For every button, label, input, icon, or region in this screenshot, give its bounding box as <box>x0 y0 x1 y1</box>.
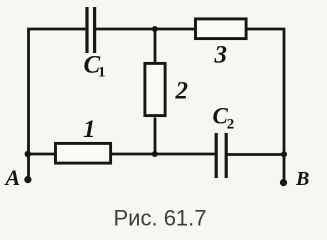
svg-text:A: A <box>4 165 21 190</box>
svg-text:2: 2 <box>227 116 235 132</box>
svg-text:3: 3 <box>214 42 228 69</box>
svg-text:Рис. 61.7: Рис. 61.7 <box>114 205 207 230</box>
svg-text:1: 1 <box>98 65 106 81</box>
svg-text:1: 1 <box>83 116 96 143</box>
svg-text:B: B <box>295 168 309 190</box>
svg-text:2: 2 <box>175 78 189 105</box>
